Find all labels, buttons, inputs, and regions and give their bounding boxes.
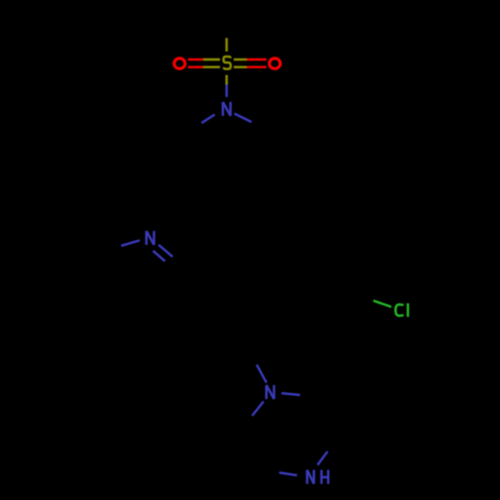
bond N-C6 piperidine (nitrogen half): [234, 114, 251, 122]
atom Cl label: [396, 303, 408, 317]
bond N-C6 pyridine single (nitrogen half): [121, 240, 140, 245]
bond N=C2 pyridine inner line (nitrogen half): [153, 251, 165, 261]
bond N-C2 piperidine (nitrogen half): [202, 115, 215, 124]
bond CH3-S (sulfur half): [225, 38, 227, 52]
bond NH-C3 piperazine left (nitrogen half): [279, 473, 297, 476]
atom O right label: [269, 58, 280, 68]
bond S-N sulfur half: [225, 75, 227, 85]
bond C-Cl (chlorine half): [373, 301, 391, 307]
bond N-C2 piperazine left (nitrogen half): [252, 401, 263, 415]
atom NH piperazine label: [307, 470, 328, 484]
atom N piperidine label: [223, 102, 231, 116]
bond S-N nitrogen half: [225, 85, 227, 97]
bond N-C6 piperazine right (nitrogen half): [282, 393, 301, 395]
bond N=C2 pyridine main line (nitrogen half): [159, 245, 173, 257]
bond S=O right bottom line: [234, 66, 247, 68]
bond S=O left top line: [188, 58, 203, 60]
bond NH-C5 piperazine right (nitrogen half): [318, 452, 328, 466]
atom S label: [224, 57, 231, 69]
bond N-CH2 chain (nitrogen half): [257, 365, 267, 383]
bond S=O right top line: [234, 58, 247, 60]
atom N pyridine label: [146, 231, 154, 245]
bond S=O left bottom line: [188, 66, 203, 68]
atom O left label: [174, 58, 185, 68]
atom N piperazine label: [266, 385, 274, 399]
